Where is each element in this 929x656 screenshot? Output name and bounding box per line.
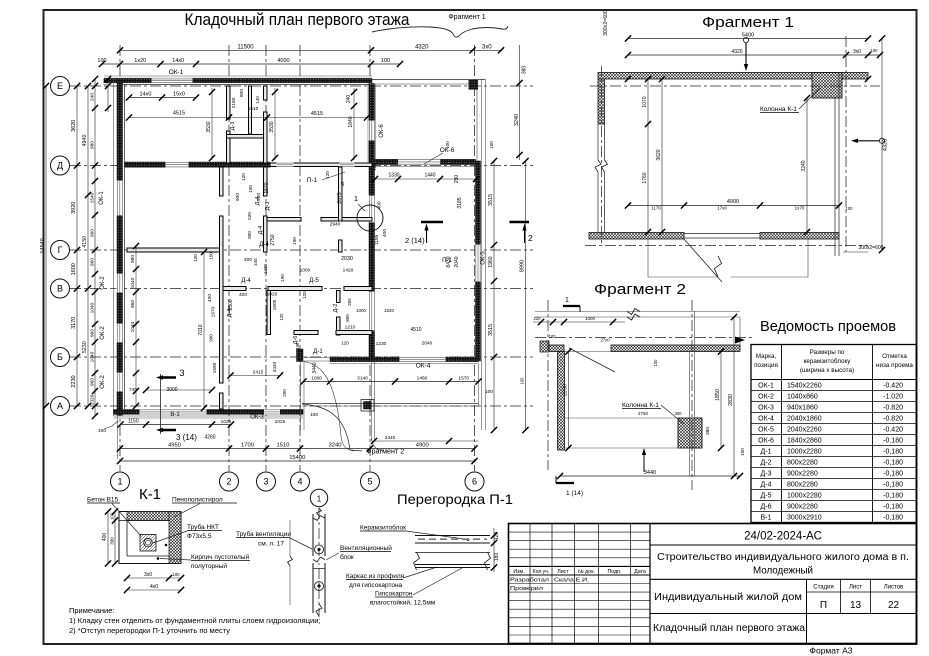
svg-text:-0,180: -0,180	[883, 493, 903, 500]
svg-text:3240: 3240	[329, 443, 342, 449]
svg-text:3515: 3515	[488, 324, 494, 336]
svg-text:120: 120	[302, 291, 307, 299]
svg-text:низа проема: низа проема	[876, 362, 913, 369]
svg-text:400: 400	[377, 201, 383, 209]
svg-text:см. л. 17: см. л. 17	[258, 541, 284, 548]
svg-text:1520: 1520	[384, 308, 395, 313]
svg-text:3000: 3000	[166, 387, 177, 393]
svg-text:-1.020: -1.020	[883, 394, 903, 401]
svg-text:Гипсокартон: Гипсокартон	[375, 591, 413, 598]
svg-text:Труба вентиляции: Труба вентиляции	[236, 530, 291, 538]
svg-text:120: 120	[241, 173, 246, 181]
svg-text:150: 150	[209, 252, 214, 260]
svg-text:100: 100	[740, 448, 745, 456]
svg-text:120: 120	[325, 171, 330, 179]
svg-text:1155: 1155	[374, 235, 380, 246]
svg-text:ОК-3: ОК-3	[758, 405, 774, 412]
svg-text:2830: 2830	[728, 394, 734, 406]
svg-text:Подп.: Подп.	[607, 569, 621, 575]
svg-text:2750: 2750	[638, 411, 649, 416]
svg-text:влагостойкий, 12,5мм: влагостойкий, 12,5мм	[370, 599, 436, 607]
svg-text:180: 180	[372, 163, 377, 171]
svg-text:3620: 3620	[71, 120, 77, 132]
svg-text:2040: 2040	[454, 256, 460, 267]
svg-text:1510: 1510	[277, 443, 290, 449]
svg-text:1170: 1170	[651, 206, 661, 211]
svg-text:100: 100	[295, 342, 300, 350]
svg-text:Бетон В15: Бетон В15	[87, 497, 119, 504]
svg-text:Д-4: Д-4	[258, 226, 264, 235]
svg-text:Изм.: Изм.	[513, 569, 524, 575]
svg-text:100: 100	[445, 141, 450, 149]
svg-text:Колонна К-1: Колонна К-1	[622, 402, 659, 409]
svg-text:Кладочный план первого этажа: Кладочный план первого этажа	[185, 11, 411, 29]
svg-text:Скала Е.И.: Скала Е.И.	[554, 578, 589, 584]
svg-text:100: 100	[653, 359, 658, 367]
svg-text:2750: 2750	[270, 234, 276, 245]
svg-text:150: 150	[248, 185, 253, 193]
svg-text:1х20: 1х20	[134, 58, 146, 64]
svg-text:2230: 2230	[71, 375, 77, 387]
svg-text:-0.820: -0.820	[883, 405, 903, 412]
svg-text:960: 960	[89, 229, 95, 237]
svg-text:15х0: 15х0	[173, 92, 185, 98]
svg-text:300: 300	[675, 411, 683, 416]
svg-text:800: 800	[239, 89, 245, 97]
svg-text:ОК-2: ОК-2	[100, 375, 106, 389]
svg-text:ОК-2: ОК-2	[758, 394, 774, 401]
svg-text:220: 220	[534, 316, 542, 321]
svg-text:Д: Д	[57, 161, 63, 171]
svg-text:6: 6	[472, 477, 477, 487]
svg-text:1850: 1850	[715, 389, 721, 401]
svg-text:ОК-4: ОК-4	[758, 416, 774, 423]
svg-text:240: 240	[346, 95, 352, 104]
svg-text:24/02-2024-АС: 24/02-2024-АС	[744, 531, 822, 543]
svg-text:1000х2280: 1000х2280	[787, 493, 822, 500]
svg-text:1600: 1600	[71, 263, 77, 275]
svg-text:Марка,: Марка,	[756, 353, 777, 360]
svg-text:Колонна К-1: Колонна К-1	[760, 106, 797, 113]
svg-text:900х2280: 900х2280	[787, 471, 818, 478]
svg-text:Молодежный: Молодежный	[753, 566, 813, 577]
svg-text:100: 100	[381, 58, 390, 64]
svg-text:Фрагмент 2: Фрагмент 2	[594, 282, 686, 298]
svg-text:100: 100	[549, 334, 557, 339]
svg-text:ОК-6: ОК-6	[379, 124, 385, 138]
svg-text:1х70: 1х70	[795, 206, 805, 211]
svg-text:120: 120	[494, 532, 500, 541]
svg-text:Проверил: Проверил	[510, 586, 543, 592]
svg-text:800х2280: 800х2280	[787, 482, 818, 489]
svg-text:3515: 3515	[488, 194, 494, 206]
svg-text:4х0: 4х0	[150, 584, 158, 590]
svg-text:Д-2: Д-2	[333, 304, 339, 313]
svg-text:Перегородка П-1: Перегородка П-1	[397, 491, 513, 507]
svg-text:4000: 4000	[277, 58, 289, 64]
svg-text:1760: 1760	[642, 172, 648, 183]
svg-text:-0,180: -0,180	[883, 471, 903, 478]
svg-text:Лист: Лист	[849, 585, 862, 591]
svg-text:Д-3: Д-3	[761, 471, 772, 478]
svg-text:800: 800	[345, 314, 350, 322]
svg-text:Фрагмент 1: Фрагмент 1	[702, 15, 794, 31]
svg-text:960: 960	[89, 258, 95, 266]
svg-text:22: 22	[888, 600, 900, 611]
svg-text:1: 1	[117, 477, 122, 487]
svg-text:Индивидуальный жилой дом: Индивидуальный жилой дом	[654, 592, 802, 603]
svg-text:14х0: 14х0	[172, 58, 184, 64]
svg-text:2040х2260: 2040х2260	[787, 427, 822, 434]
svg-text:В: В	[57, 284, 63, 294]
svg-text:Кол.уч.: Кол.уч.	[533, 569, 549, 575]
svg-text:3440: 3440	[272, 361, 278, 372]
svg-text:Примечание:: Примечание:	[69, 606, 115, 615]
svg-text:3х0: 3х0	[482, 45, 492, 51]
svg-text:190: 190	[292, 237, 297, 245]
svg-text:120: 120	[279, 313, 284, 321]
svg-text:4150: 4150	[82, 236, 88, 248]
svg-text:3240: 3240	[514, 114, 520, 126]
svg-text:1840х2860: 1840х2860	[787, 438, 822, 445]
svg-text:3500: 3500	[228, 299, 234, 310]
svg-text:980: 980	[130, 255, 136, 263]
svg-text:3: 3	[263, 477, 268, 487]
svg-text:3: 3	[179, 368, 184, 378]
svg-text:3440: 3440	[312, 362, 318, 373]
svg-text:1840: 1840	[348, 116, 354, 127]
svg-text:1040: 1040	[89, 302, 95, 313]
svg-text:900: 900	[235, 193, 241, 201]
svg-text:140: 140	[255, 96, 260, 104]
svg-text:-0.420: -0.420	[883, 427, 903, 434]
svg-text:8990: 8990	[520, 260, 526, 272]
svg-text:290: 290	[282, 389, 287, 397]
svg-text:380: 380	[705, 427, 711, 435]
svg-text:-0,180: -0,180	[883, 504, 903, 511]
svg-text:Каркас из профиля: Каркас из профиля	[346, 573, 405, 580]
svg-text:3440: 3440	[644, 470, 656, 476]
svg-text:Керамзитоблок: Керамзитоблок	[360, 524, 406, 532]
svg-text:100: 100	[109, 512, 114, 520]
svg-text:Пенополистирол: Пенополистирол	[172, 497, 223, 504]
svg-text:4900: 4900	[727, 199, 739, 205]
svg-text:-0.420: -0.420	[883, 383, 903, 390]
svg-text:А: А	[57, 401, 63, 411]
svg-text:2940: 2940	[330, 222, 341, 228]
svg-text:3920: 3920	[71, 202, 77, 214]
svg-text:2 (14): 2 (14)	[405, 236, 425, 245]
svg-text:Формат А3: Формат А3	[810, 646, 853, 656]
svg-text:240: 240	[89, 93, 95, 101]
svg-text:3440: 3440	[385, 435, 396, 441]
svg-text:120: 120	[341, 341, 349, 346]
svg-text:3170: 3170	[71, 317, 77, 329]
svg-text:400: 400	[207, 294, 213, 302]
svg-text:1150: 1150	[128, 419, 139, 425]
svg-text:Г: Г	[58, 245, 63, 255]
svg-text:Д-5: Д-5	[761, 493, 772, 500]
svg-text:2415: 2415	[253, 370, 264, 376]
svg-text:300х2=600: 300х2=600	[603, 10, 609, 36]
svg-text:1570: 1570	[458, 376, 469, 382]
svg-text:В-1: В-1	[761, 515, 772, 522]
svg-text:7010: 7010	[198, 324, 204, 335]
svg-text:11500: 11500	[237, 45, 254, 51]
svg-text:45: 45	[340, 181, 345, 187]
svg-text:980: 980	[89, 141, 95, 149]
svg-text:1590: 1590	[212, 362, 218, 373]
svg-text:1460: 1460	[417, 376, 428, 382]
svg-text:ОК-5: ОК-5	[758, 427, 774, 434]
svg-text:4950: 4950	[168, 443, 181, 449]
svg-text:позиция: позиция	[754, 362, 778, 369]
svg-text:1230: 1230	[376, 341, 387, 347]
svg-text:блок: блок	[340, 553, 354, 561]
svg-text:Д-4: Д-4	[761, 482, 772, 489]
svg-text:№ док.: № док.	[578, 569, 595, 575]
svg-text:1040: 1040	[130, 277, 136, 288]
svg-text:960: 960	[89, 378, 95, 386]
svg-text:8430: 8430	[446, 256, 452, 267]
svg-text:1430: 1430	[263, 263, 268, 274]
svg-text:445: 445	[253, 258, 258, 266]
svg-text:ОК-3: ОК-3	[250, 415, 264, 421]
svg-text:1320: 1320	[89, 394, 95, 405]
svg-text:Отметка: Отметка	[882, 353, 907, 360]
svg-text:4260: 4260	[204, 435, 215, 441]
svg-text:Д-1: Д-1	[761, 449, 772, 456]
svg-text:100: 100	[97, 58, 106, 64]
svg-text:740: 740	[129, 387, 137, 393]
svg-text:3530: 3530	[269, 121, 275, 132]
svg-text:1210: 1210	[345, 325, 356, 331]
svg-text:-0,180: -0,180	[883, 449, 903, 456]
svg-text:-0,180: -0,180	[883, 482, 903, 489]
svg-text:1040х860: 1040х860	[787, 394, 818, 401]
svg-text:-0,180: -0,180	[883, 460, 903, 467]
svg-text:Дата: Дата	[634, 569, 646, 575]
svg-text:14540: 14540	[40, 238, 46, 253]
svg-text:2040х1860: 2040х1860	[787, 416, 822, 423]
svg-text:2) *Отступ перегородки П-1 уто: 2) *Отступ перегородки П-1 уточнить по м…	[69, 626, 230, 635]
svg-text:ОК-1: ОК-1	[99, 191, 105, 205]
svg-text:Стадия: Стадия	[813, 585, 833, 591]
svg-text:2040: 2040	[422, 341, 433, 347]
svg-text:2075: 2075	[337, 192, 343, 203]
svg-text:800: 800	[247, 231, 252, 239]
svg-text:1070: 1070	[642, 96, 648, 107]
svg-text:180: 180	[494, 553, 500, 562]
svg-text:Строительство индивидуального: Строительство индивидуального жилого дом…	[657, 552, 909, 563]
svg-text:Д-4: Д-4	[259, 242, 269, 248]
svg-text:520: 520	[247, 212, 252, 220]
svg-text:Лист: Лист	[557, 569, 569, 575]
svg-text:П: П	[820, 600, 827, 611]
svg-text:5: 5	[367, 477, 372, 487]
svg-text:1000х2280: 1000х2280	[787, 449, 822, 456]
svg-text:Д-3: Д-3	[230, 122, 236, 131]
svg-text:ОК-2: ОК-2	[100, 326, 106, 340]
svg-text:4510: 4510	[410, 327, 421, 333]
svg-text:1420: 1420	[343, 268, 354, 274]
svg-text:100: 100	[520, 377, 525, 385]
svg-text:1025: 1025	[275, 419, 286, 425]
svg-text:ОК-4: ОК-4	[416, 363, 431, 370]
svg-text:1605: 1605	[272, 299, 278, 310]
svg-text:1040: 1040	[130, 321, 136, 332]
svg-text:3240: 3240	[801, 160, 807, 171]
svg-text:4515: 4515	[311, 111, 323, 117]
svg-text:380: 380	[522, 66, 528, 75]
svg-text:керамзитоблоку: керамзитоблоку	[804, 357, 852, 365]
svg-text:400: 400	[382, 229, 388, 237]
svg-text:Вентиляционный: Вентиляционный	[340, 544, 392, 552]
svg-text:4515: 4515	[173, 111, 185, 117]
svg-text:1540х2260: 1540х2260	[787, 383, 822, 390]
svg-text:100: 100	[310, 412, 318, 418]
svg-text:2190: 2190	[231, 97, 237, 108]
svg-text:(ширина х высота): (ширина х высота)	[800, 367, 854, 374]
svg-text:для гипсокартона: для гипсокартона	[349, 582, 403, 589]
svg-text:Е: Е	[57, 81, 63, 91]
svg-text:Б: Б	[57, 352, 63, 362]
svg-text:900: 900	[256, 193, 262, 201]
svg-text:П-1: П-1	[307, 177, 318, 184]
svg-text:1570: 1570	[211, 306, 217, 317]
svg-text:полуторный: полуторный	[191, 562, 227, 570]
svg-text:960: 960	[130, 300, 136, 308]
svg-text:27х0: 27х0	[600, 338, 610, 343]
svg-text:-0.820: -0.820	[883, 416, 903, 423]
svg-text:100: 100	[846, 206, 854, 211]
svg-text:В-1: В-1	[170, 412, 180, 418]
svg-text:15400: 15400	[289, 455, 305, 461]
svg-text:100: 100	[871, 48, 879, 53]
svg-text:4940: 4940	[82, 135, 88, 147]
svg-text:-0.180: -0.180	[883, 438, 903, 445]
svg-text:5230: 5230	[82, 341, 88, 353]
svg-text:1 (14): 1 (14)	[566, 490, 583, 497]
svg-text:2: 2	[528, 233, 533, 243]
svg-text:120: 120	[193, 254, 198, 262]
svg-text:-0,180: -0,180	[883, 515, 903, 522]
svg-text:1960: 1960	[488, 256, 494, 267]
svg-text:ОК-6: ОК-6	[758, 438, 774, 445]
svg-text:1000: 1000	[311, 376, 322, 382]
svg-text:1: 1	[565, 297, 569, 304]
svg-text:Разработал: Разработал	[510, 578, 549, 584]
svg-text:14х0: 14х0	[140, 92, 152, 98]
svg-text:1510: 1510	[248, 106, 259, 112]
svg-text:4: 4	[297, 477, 302, 487]
svg-text:100: 100	[173, 572, 181, 577]
svg-text:400: 400	[239, 292, 247, 298]
svg-text:940х1860: 940х1860	[787, 405, 818, 412]
svg-text:1: 1	[317, 495, 322, 504]
svg-text:900х2280: 900х2280	[787, 504, 818, 511]
svg-text:4320: 4320	[415, 45, 429, 51]
svg-text:300х2=600: 300х2=600	[859, 245, 884, 251]
svg-text:Д-2: Д-2	[761, 460, 772, 467]
svg-text:2030: 2030	[341, 256, 353, 262]
svg-text:100: 100	[485, 389, 493, 395]
svg-text:3х0: 3х0	[853, 49, 861, 55]
svg-text:Размеры по: Размеры по	[810, 349, 845, 356]
svg-text:Ведомость проемов: Ведомость проемов	[760, 319, 896, 335]
svg-text:ОК-1: ОК-1	[758, 383, 774, 390]
svg-text:100: 100	[103, 78, 108, 86]
svg-text:Фрагмент 1: Фрагмент 1	[448, 14, 485, 21]
svg-text:3185: 3185	[457, 197, 463, 208]
svg-text:1) Кладку стен отделить от фун: 1) Кладку стен отделить от фундаментной …	[69, 616, 320, 625]
svg-text:3000х2910: 3000х2910	[787, 515, 822, 522]
svg-text:300: 300	[109, 537, 114, 545]
svg-text:2230: 2230	[563, 384, 569, 396]
svg-text:К-1: К-1	[139, 486, 161, 503]
svg-text:Д-3: Д-3	[265, 202, 271, 211]
svg-text:1570: 1570	[264, 182, 270, 193]
svg-text:100: 100	[489, 141, 494, 149]
svg-text:1025: 1025	[221, 419, 232, 425]
svg-text:900: 900	[209, 334, 214, 342]
svg-text:190: 190	[280, 274, 285, 282]
svg-text:4900: 4900	[416, 443, 429, 449]
svg-text:Д-4: Д-4	[241, 278, 251, 284]
svg-text:400: 400	[244, 257, 252, 263]
svg-text:400: 400	[102, 533, 108, 542]
svg-text:1000: 1000	[300, 268, 311, 274]
svg-text:1: 1	[354, 194, 358, 203]
svg-text:1000: 1000	[585, 316, 596, 321]
svg-text:1540: 1540	[89, 192, 95, 203]
svg-text:3620: 3620	[656, 149, 662, 160]
svg-text:3 (14): 3 (14)	[176, 433, 197, 442]
svg-text:4320: 4320	[883, 139, 889, 151]
svg-text:Листов: Листов	[884, 585, 904, 591]
svg-text:Ф73х5,5: Ф73х5,5	[187, 533, 212, 540]
svg-text:Кирпич пустотелый: Кирпич пустотелый	[191, 553, 249, 561]
svg-text:3140: 3140	[357, 376, 368, 382]
svg-text:1040: 1040	[89, 351, 95, 362]
svg-text:Труба НКТ: Труба НКТ	[187, 523, 219, 531]
svg-text:800х2280: 800х2280	[787, 460, 818, 467]
svg-text:13: 13	[850, 600, 862, 611]
svg-text:ОК-5: ОК-5	[481, 251, 487, 265]
svg-text:Фрагмент 2: Фрагмент 2	[366, 447, 404, 456]
svg-text:1330: 1330	[388, 173, 399, 179]
svg-text:ОК-2: ОК-2	[100, 276, 106, 290]
svg-text:960: 960	[89, 329, 95, 337]
svg-text:205: 205	[347, 298, 352, 306]
svg-text:3530: 3530	[206, 121, 212, 132]
svg-text:Д-1: Д-1	[313, 349, 323, 355]
svg-text:ОК-1: ОК-1	[169, 69, 184, 76]
svg-text:1020: 1020	[267, 292, 278, 298]
svg-text:3х0: 3х0	[144, 572, 152, 578]
svg-text:1000: 1000	[356, 308, 367, 313]
svg-text:2: 2	[226, 477, 231, 487]
svg-text:Д-5: Д-5	[309, 278, 319, 284]
svg-text:4320: 4320	[731, 49, 742, 55]
svg-text:1440: 1440	[424, 173, 435, 179]
svg-text:Д-6: Д-6	[761, 504, 772, 511]
svg-text:Кладочный план первого этажа: Кладочный план первого этажа	[653, 623, 806, 634]
svg-text:1700: 1700	[241, 443, 254, 449]
svg-text:17х0: 17х0	[717, 206, 727, 211]
